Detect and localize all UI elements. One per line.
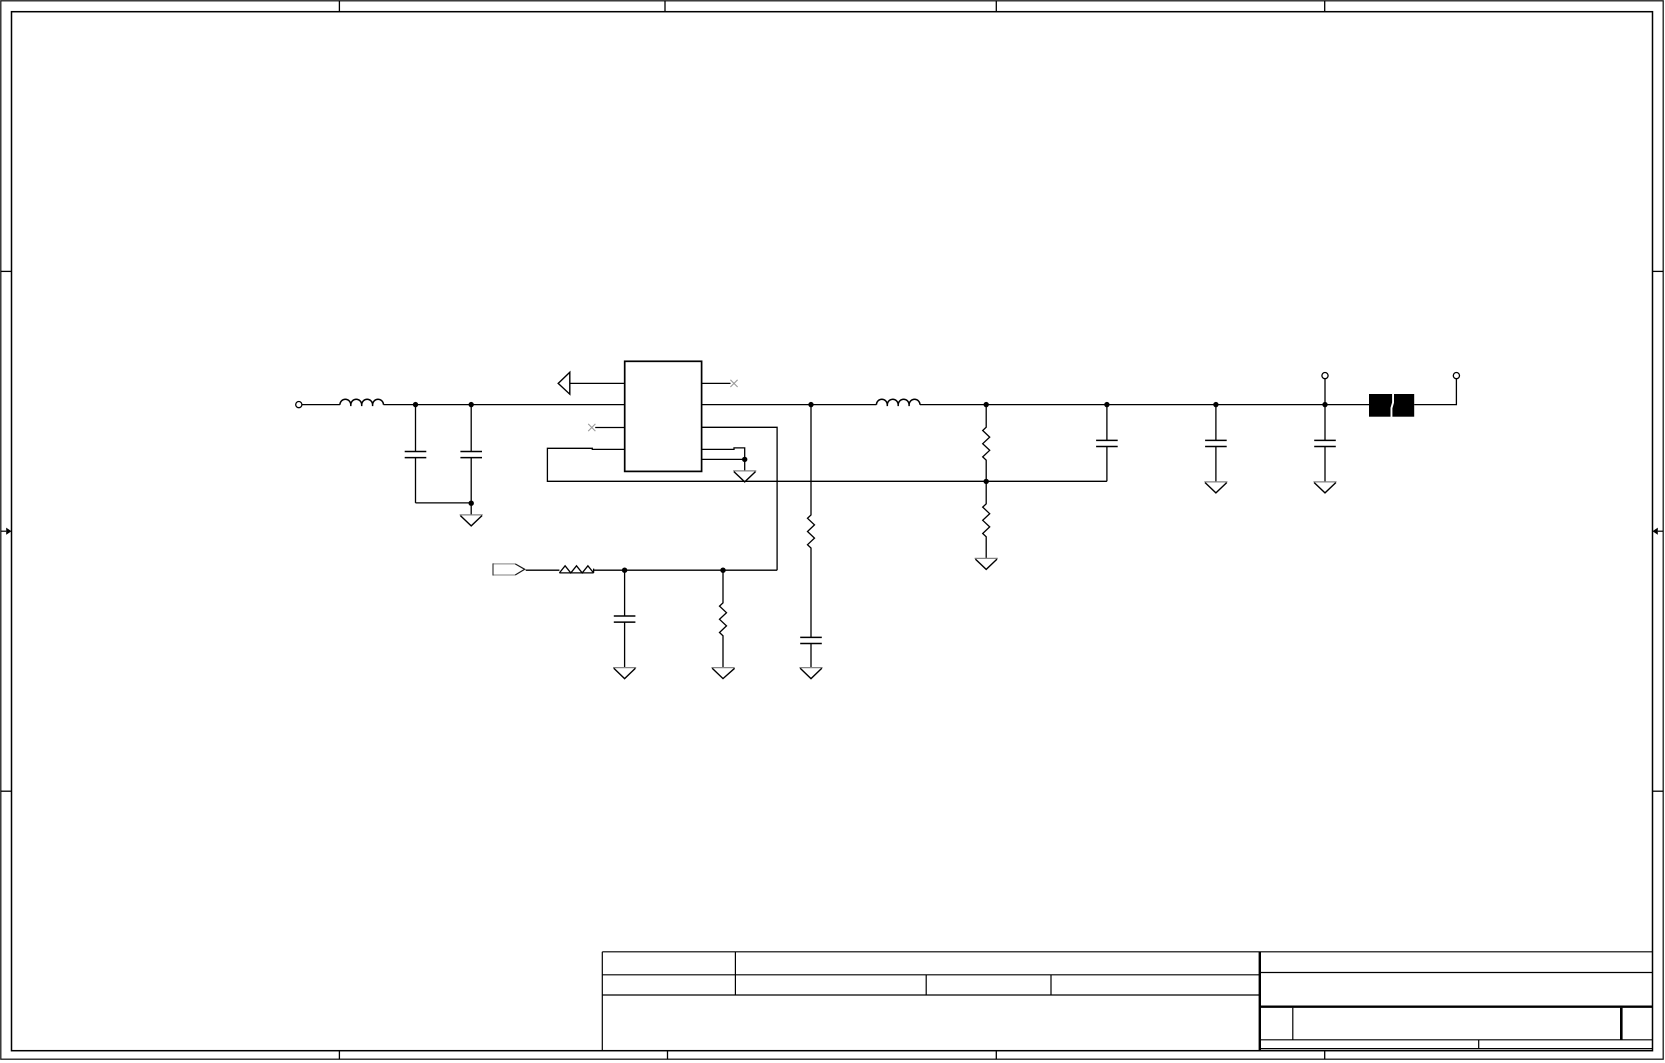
title block bbox=[602, 952, 1652, 1051]
zone tick bottom 4 bbox=[1324, 1051, 1326, 1060]
zone tick right 1 bbox=[1653, 270, 1664, 272]
wire input to L1 bbox=[302, 404, 340, 406]
junction node C5 bbox=[1104, 402, 1109, 407]
junction node divider top bbox=[984, 402, 989, 407]
wire L2 to output terminal bbox=[920, 404, 1369, 406]
zone tick bottom 1 bbox=[338, 1051, 340, 1060]
zone tick top 3 bbox=[995, 1, 997, 12]
no-connect cross right bbox=[730, 380, 737, 387]
op-amp U1 regulator box bbox=[625, 361, 702, 471]
inductor L2 bbox=[876, 399, 920, 406]
capacitor C6 bbox=[1205, 405, 1227, 482]
junction node C2 bbox=[469, 402, 474, 407]
zone tick left 1 bbox=[1, 270, 12, 272]
junction node C7 bbox=[1322, 402, 1327, 407]
capacitor C5 bbox=[1096, 405, 1118, 482]
output wire IC to L2 bbox=[702, 404, 877, 406]
wire to ground G2 bbox=[744, 459, 746, 471]
inductor L1 bbox=[340, 399, 384, 406]
wire to ground G1 bbox=[470, 503, 472, 515]
wire C1 C2 bottoms bbox=[416, 502, 472, 504]
capacitor C1 bbox=[405, 405, 427, 503]
wire R1 to divider node bbox=[594, 569, 778, 571]
wire L1 to IC bbox=[384, 404, 625, 406]
zone tick bottom 3 bbox=[995, 1051, 997, 1060]
input terminal T1 bbox=[296, 402, 302, 408]
junction node snubber bbox=[808, 402, 813, 407]
resistor R4 bbox=[983, 405, 990, 482]
ground G1 bbox=[460, 515, 483, 526]
resistor R2 bbox=[720, 570, 727, 667]
junction node C3 bbox=[622, 568, 627, 573]
junction node ground bbox=[469, 501, 474, 506]
no-connect cross left bbox=[588, 424, 595, 431]
pin 7 wire to feedback divider bbox=[702, 427, 778, 570]
zone tick top 4 bbox=[1324, 1, 1326, 12]
ground G2 bbox=[733, 471, 756, 482]
pin 8 ground wire bbox=[702, 458, 745, 460]
arrowhead enable pin bbox=[558, 372, 570, 394]
junction node C6 bbox=[1213, 402, 1218, 407]
ground G3 bbox=[613, 668, 636, 679]
wire bead to terminal T3 bbox=[1414, 379, 1456, 405]
junction node C1 bbox=[413, 402, 418, 407]
ground G4 bbox=[711, 668, 734, 679]
pin 6 no-connect wire bbox=[702, 382, 731, 384]
pin 1 wire with arrow bbox=[570, 382, 625, 384]
resistor R3 bbox=[808, 405, 815, 638]
zone tick bottom 2 bbox=[667, 1051, 669, 1060]
pin 3 no-connect wire bbox=[595, 427, 625, 429]
ground G5 bbox=[799, 668, 822, 679]
junction node feedback bbox=[984, 479, 989, 484]
ferrite bead FB1 bbox=[1369, 394, 1414, 418]
zone tick top 2 bbox=[664, 1, 666, 12]
wire to terminal T2 bbox=[1324, 379, 1326, 405]
capacitor C7 bbox=[1314, 405, 1336, 482]
junction node ground pins bbox=[742, 457, 747, 462]
pin 5 ground wire route bbox=[702, 448, 745, 460]
resistor R5 bbox=[983, 481, 990, 558]
zone tick top 1 bbox=[338, 1, 340, 12]
centering arrow right edge bbox=[1653, 528, 1664, 535]
capacitor C2 bbox=[460, 405, 482, 503]
ground G7 bbox=[1204, 482, 1227, 493]
output terminal T3 bbox=[1453, 373, 1459, 379]
ground G6 bbox=[975, 558, 998, 569]
pin 4 wire route bbox=[547, 448, 1107, 481]
resistor R1 horizontal bbox=[559, 566, 593, 573]
ground G8 bbox=[1313, 482, 1336, 493]
zone tick right 2 bbox=[1653, 790, 1664, 792]
wire flag to R1 bbox=[526, 569, 560, 571]
capacitor C4 bbox=[800, 637, 822, 667]
junction node R2 bbox=[720, 568, 725, 573]
capacitor C3 bbox=[614, 570, 636, 667]
zone tick left 2 bbox=[1, 790, 12, 792]
centering arrow left edge bbox=[1, 528, 12, 535]
net flag VOUT sense bbox=[493, 563, 525, 575]
output terminal T2 bbox=[1322, 373, 1328, 379]
